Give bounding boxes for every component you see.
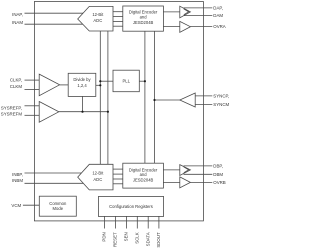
wire SPI pin stub SEN (126, 216, 128, 228)
wire DAP output (184, 7, 213, 9)
node clock to PLL junction (99, 80, 101, 82)
wire CLKP input (25, 79, 40, 81)
wire bus ADC-A to encoder-A line 3 (113, 20, 123, 22)
wire SYSREFP input (25, 105, 40, 107)
wire INAM input (25, 23, 83, 25)
wire clock buffer to divider (60, 84, 69, 86)
wire INAP input (25, 12, 84, 14)
node SYNC bus junction (153, 99, 155, 101)
wire VCM output (23, 204, 39, 206)
wire DBM output (184, 173, 213, 175)
svg-text:12-Bit: 12-Bit (92, 171, 104, 176)
wire encoder-A to buffer T2 (163, 26, 179, 28)
node SYSREF bus junction (107, 111, 109, 113)
svg-text:Divide by: Divide by (73, 77, 91, 82)
svg-text:INAP,: INAP, (12, 12, 23, 17)
wire SYNCM input (195, 104, 212, 106)
wire DBP output (184, 165, 213, 167)
wire SYSREFM input (25, 114, 40, 116)
svg-text:SDOUT: SDOUT (156, 232, 161, 248)
wire SYSREF stub to divider (82, 96, 84, 111)
svg-text:DAP,: DAP, (213, 6, 223, 11)
wire SPI pin stub PDN (103, 216, 105, 228)
wire encoder-B to buffer T4 (163, 181, 179, 183)
wire bus ADC-A to encoder-A line 2 (113, 16, 123, 18)
wire SYSREF distribution (59, 111, 108, 113)
configuration registers block (98, 197, 163, 217)
output buffer T2 OVRA (180, 21, 191, 32)
SYSREF input buffer (39, 102, 59, 123)
svg-text:CLKP,: CLKP, (10, 78, 22, 83)
svg-text:DBP,: DBP, (213, 164, 223, 169)
wire vertical SYSREF bus (107, 31, 109, 164)
wire vertical encoder clock bus (144, 31, 146, 163)
wire INBP input (25, 172, 82, 174)
svg-text:JESD204B: JESD204B (133, 20, 154, 25)
svg-text:OVRB: OVRB (213, 180, 226, 185)
svg-text:12-Bit: 12-Bit (92, 12, 104, 17)
wire bus ADC-A to encoder-A line 1 (113, 11, 123, 13)
wire SYNC buffer output (155, 99, 180, 101)
svg-text:INAM: INAM (12, 20, 23, 25)
wire vertical ADC clock bus (99, 31, 101, 164)
wire CLKM input (25, 89, 40, 91)
wire vertical SYNC bus (154, 31, 156, 163)
output buffer T3 DBP/DBM (180, 165, 191, 176)
svg-text:and: and (140, 14, 148, 19)
svg-text:JESD204B: JESD204B (133, 178, 154, 183)
svg-text:SYSREFP,: SYSREFP, (1, 105, 22, 110)
svg-text:Configuration Registers: Configuration Registers (109, 204, 153, 209)
svg-text:SYSREFM: SYSREFM (1, 112, 23, 117)
digital encoder U1 JESD204B block A (123, 6, 164, 31)
svg-text:CLKM: CLKM (10, 84, 23, 89)
svg-text:PLL: PLL (122, 78, 130, 83)
svg-text:OVRA: OVRA (213, 24, 226, 29)
output buffer T1 inner triangle (184, 9, 189, 15)
clock input buffer (39, 74, 59, 96)
wire INBM input (25, 182, 84, 184)
divide by 1,2,4 block (68, 73, 96, 96)
svg-text:INBP,: INBP, (12, 172, 23, 177)
wire DAM output (184, 15, 213, 17)
node SYSREF divider stub junction (81, 111, 83, 113)
wire OVRB output (190, 181, 212, 183)
common mode block (39, 196, 76, 216)
wire SPI pin stub SDOUT (158, 216, 160, 228)
wire encoder-B to buffer T3 (163, 169, 179, 171)
svg-text:RESET: RESET (113, 232, 118, 247)
svg-text:DAM: DAM (213, 13, 223, 18)
svg-text:and: and (140, 172, 148, 177)
svg-text:1,2,4: 1,2,4 (77, 83, 87, 88)
PLL block (113, 70, 139, 92)
svg-text:SYNCM: SYNCM (213, 102, 229, 107)
wire bus ADC-A to encoder-A line 4 (113, 25, 123, 27)
svg-text:ADC: ADC (93, 18, 102, 23)
wire SYNCP input (195, 95, 212, 97)
output buffer T4 OVRB (180, 177, 191, 188)
svg-text:Mode: Mode (53, 206, 64, 211)
svg-text:DBM: DBM (213, 172, 223, 177)
svg-text:SCLK: SCLK (134, 232, 139, 244)
output buffer T3 inner triangle (184, 167, 189, 173)
wire OVRA output (190, 26, 212, 28)
wire SPI pin stub RESET (114, 216, 116, 228)
svg-text:PDN: PDN (102, 232, 107, 241)
ADC B 12-bit converter pentagon (78, 164, 113, 190)
wire PLL output to encoder clock bus (139, 80, 145, 82)
node divider output junction (99, 84, 101, 86)
wire SPI pin stub SCLK (136, 216, 138, 228)
node PLL output junction (144, 80, 146, 82)
svg-text:VCM: VCM (11, 203, 21, 208)
output buffer T1 DAP/DAM (180, 6, 191, 18)
ADC A 12-bit converter pentagon (78, 6, 113, 31)
wire encoder-A to buffer T1 (163, 11, 179, 13)
wire clock node to PLL (100, 80, 113, 82)
wire bus ADC-B to encoder-B line 1 (113, 168, 123, 170)
svg-text:ADC: ADC (93, 177, 102, 182)
wire bus ADC-B to encoder-B line 3 (113, 178, 123, 180)
svg-text:SDATA: SDATA (145, 232, 150, 246)
wire SPI pin stub SDATA (147, 216, 149, 228)
digital encoder U2 JESD204B block B (123, 163, 164, 188)
svg-text:SYNCP,: SYNCP, (213, 94, 229, 99)
svg-text:SEN: SEN (124, 232, 129, 241)
wire bus ADC-B to encoder-B line 4 (113, 183, 123, 185)
wire divider output to clock node (96, 84, 101, 86)
svg-text:INBM: INBM (12, 178, 23, 183)
outer chip boundary box (34, 2, 203, 221)
SYNC receiver buffer (180, 93, 195, 107)
wire bus ADC-B to encoder-B line 2 (113, 173, 123, 175)
